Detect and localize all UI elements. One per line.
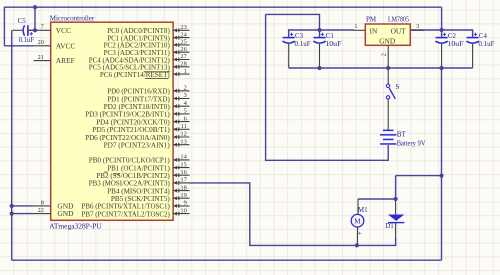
pin 6 PD4 bbox=[96, 115, 189, 126]
node diode/motor bbox=[394, 197, 398, 201]
wire C2 bottom lead bbox=[441, 44, 443, 68]
pin 12 PD6 bbox=[85, 131, 189, 142]
wire diode node to motor drop bbox=[358, 198, 396, 200]
svg-text:D1: D1 bbox=[385, 222, 394, 230]
svg-text:22: 22 bbox=[38, 207, 44, 214]
svg-text:M: M bbox=[354, 217, 361, 226]
svg-text:21: 21 bbox=[38, 54, 44, 61]
svg-text:17: 17 bbox=[180, 177, 187, 184]
pin 3 OUT bbox=[410, 29, 424, 31]
svg-text:OUT: OUT bbox=[391, 26, 407, 35]
capacitor C2 10uF bbox=[435, 32, 463, 48]
svg-text:5: 5 bbox=[184, 108, 187, 115]
pin 1 IN bbox=[353, 29, 365, 31]
wire motor top lead bbox=[357, 199, 359, 214]
capacitor C3 0.1uF bbox=[283, 32, 311, 48]
svg-text:26: 26 bbox=[180, 46, 186, 53]
wire C4 top lead bbox=[472, 29, 474, 37]
svg-text:20: 20 bbox=[38, 39, 44, 46]
wire OUT rail bbox=[410, 29, 472, 31]
pin 26 PC3 bbox=[104, 46, 190, 57]
svg-text:S: S bbox=[395, 83, 399, 91]
svg-text:10uF: 10uF bbox=[447, 40, 463, 48]
svg-text:GND: GND bbox=[57, 209, 74, 218]
svg-text:28: 28 bbox=[180, 61, 186, 68]
wire +V top rail bbox=[4, 6, 441, 8]
svg-text:VCC: VCC bbox=[56, 26, 71, 35]
node C1 gnd bbox=[317, 66, 321, 70]
svg-text:14: 14 bbox=[180, 154, 187, 161]
svg-text:AREF: AREF bbox=[56, 56, 75, 65]
svg-text:M1: M1 bbox=[358, 206, 368, 214]
pin 20 AVCC bbox=[34, 39, 51, 46]
capacitor C4 0.1uF bbox=[466, 32, 494, 48]
wire C1 bottom lead bbox=[319, 44, 321, 68]
svg-text:0.1uF: 0.1uF bbox=[295, 40, 311, 48]
pin 27 PC4 bbox=[89, 53, 190, 64]
pin 7 VCC bbox=[28, 24, 51, 31]
svg-text:2: 2 bbox=[380, 53, 387, 56]
motor M1 bbox=[351, 206, 368, 235]
svg-text:12: 12 bbox=[180, 131, 186, 138]
wire C3 top lead bbox=[288, 29, 290, 37]
svg-text:11: 11 bbox=[181, 123, 187, 130]
node VCC/C5 bbox=[33, 28, 37, 32]
wire drop to diode node bbox=[395, 176, 397, 199]
pin 4 PD2 bbox=[104, 100, 190, 111]
wire left +V drop to AVCC bbox=[3, 7, 5, 46]
svg-text:0.1uF: 0.1uF bbox=[478, 40, 494, 48]
svg-text:2: 2 bbox=[184, 85, 187, 92]
pin 18 PB4 bbox=[107, 184, 189, 195]
svg-text:25: 25 bbox=[180, 39, 186, 46]
svg-text:IN: IN bbox=[370, 26, 378, 35]
svg-text:13: 13 bbox=[180, 138, 186, 145]
node motor branch bbox=[439, 174, 443, 178]
wire capacitor ground rail bbox=[289, 67, 473, 69]
wire C1 top lead bbox=[319, 30, 321, 37]
wire battery loop left/bottom bbox=[266, 14, 389, 160]
wire C2 top lead bbox=[441, 30, 443, 37]
pin 8 GND bbox=[34, 199, 51, 206]
wire bottom GND rail bbox=[12, 259, 442, 261]
svg-text:27: 27 bbox=[180, 53, 187, 60]
capacitor C5 0.1uF bbox=[12, 17, 35, 44]
pin 2 PD0 bbox=[107, 85, 189, 96]
svg-text:PB7 (PCINT7/XTAL2/TOSC2): PB7 (PCINT7/XTAL2/TOSC2) bbox=[82, 209, 171, 218]
svg-text:19: 19 bbox=[180, 192, 186, 199]
pin 11 PD5 bbox=[93, 123, 190, 134]
svg-text:Microcontroller: Microcontroller bbox=[50, 14, 95, 22]
wire C3 bottom lead bbox=[288, 44, 290, 68]
capacitor C1 10uF bbox=[313, 32, 341, 48]
svg-text:1: 1 bbox=[354, 23, 357, 30]
pin 2 GND bbox=[387, 45, 389, 68]
node GND pin22 bbox=[10, 212, 14, 216]
pin 19 PB5 bbox=[111, 192, 190, 203]
node IN/C1 bbox=[317, 28, 321, 32]
pin 22 GND bbox=[34, 207, 51, 214]
pin 17 PB3 bbox=[89, 177, 190, 188]
microcontroller U1 ATmega328P-PU body bbox=[51, 22, 173, 220]
node motor bottom bbox=[355, 243, 359, 247]
pin 28 PC5 bbox=[89, 61, 190, 72]
node OUT/C2 bbox=[440, 28, 444, 32]
wire diode top lead bbox=[395, 199, 397, 215]
voltage regulator PM LM7805 bbox=[365, 15, 410, 45]
node +9V top bbox=[33, 5, 37, 9]
svg-text:3: 3 bbox=[416, 23, 419, 30]
svg-text:24: 24 bbox=[180, 31, 187, 38]
svg-text:LM7805: LM7805 bbox=[388, 15, 409, 23]
node C2 gnd bbox=[439, 66, 443, 70]
svg-text:23: 23 bbox=[180, 24, 186, 31]
svg-text:9: 9 bbox=[184, 200, 187, 207]
svg-text:PM: PM bbox=[366, 15, 377, 23]
battery BT Battery 9V bbox=[380, 130, 426, 148]
svg-text:10: 10 bbox=[180, 207, 186, 214]
svg-text:BT: BT bbox=[397, 130, 407, 138]
svg-text:ATmega328P-PU: ATmega328P-PU bbox=[49, 222, 102, 231]
wire VCC drop from top rail bbox=[34, 7, 36, 30]
svg-text:Battery 9V: Battery 9V bbox=[397, 139, 427, 147]
wire motor node to right vertical bbox=[396, 175, 442, 177]
wire battery loop top bbox=[266, 14, 320, 30]
svg-text:AVCC: AVCC bbox=[56, 41, 76, 50]
switch S bbox=[386, 68, 399, 130]
node reg GND/switch bbox=[386, 66, 390, 70]
pin 25 PC2 bbox=[104, 39, 190, 50]
svg-text:8: 8 bbox=[41, 199, 44, 206]
pin 13 PD7 bbox=[104, 138, 190, 149]
pin 1 PC6 bbox=[100, 68, 190, 79]
pin 14 PB0 bbox=[89, 154, 190, 165]
svg-text:15: 15 bbox=[180, 161, 186, 168]
svg-text:10uF: 10uF bbox=[325, 40, 341, 48]
pin 15 PB1 bbox=[107, 161, 189, 172]
svg-text:GND: GND bbox=[379, 37, 396, 46]
pin 3 PD1 bbox=[107, 92, 189, 103]
wire right GND vertical bbox=[441, 68, 443, 260]
wire GND pin22 link bbox=[12, 213, 34, 215]
svg-text:PD7 (PCINT23/AIN1): PD7 (PCINT23/AIN1) bbox=[104, 141, 171, 150]
svg-text:3: 3 bbox=[184, 92, 187, 99]
wire IN rail bbox=[289, 29, 354, 31]
diode D1 bbox=[385, 215, 404, 230]
overline/underline marks on RESET, PCINT13, SS, PB1 bbox=[144, 70, 171, 73]
wire C4 bottom lead bbox=[472, 44, 474, 68]
pin 10 PB7 bbox=[82, 207, 190, 218]
pin 23 PC0 bbox=[107, 24, 189, 35]
wire top rail drop to OUT node bbox=[441, 7, 443, 30]
pin 16 PB2 bbox=[96, 169, 189, 180]
wire diode bottom lead bbox=[395, 222, 397, 238]
svg-text:6: 6 bbox=[184, 115, 187, 122]
wire PB3 to motor bottom rail bbox=[190, 183, 396, 246]
svg-text:C5: C5 bbox=[18, 17, 27, 25]
svg-text:1: 1 bbox=[184, 68, 187, 75]
wire motor bottom lead bbox=[357, 227, 359, 245]
svg-text:PC6 (PCINT14/RESET): PC6 (PCINT14/RESET) bbox=[100, 70, 170, 79]
wire left GND vertical bbox=[11, 30, 13, 260]
pin 21 AREF bbox=[34, 54, 51, 61]
svg-text:16: 16 bbox=[180, 169, 186, 176]
svg-text:0.1uF: 0.1uF bbox=[19, 36, 35, 44]
svg-text:7: 7 bbox=[41, 24, 44, 31]
wire GND pin8 link bbox=[12, 205, 34, 207]
pin 24 PC1 bbox=[107, 31, 189, 42]
pin 5 PD3 bbox=[85, 108, 189, 119]
svg-text:18: 18 bbox=[180, 184, 186, 191]
wire AVCC feed bbox=[4, 45, 33, 47]
node GND pin8 bbox=[10, 204, 14, 208]
pin 9 PB6 bbox=[82, 200, 190, 211]
